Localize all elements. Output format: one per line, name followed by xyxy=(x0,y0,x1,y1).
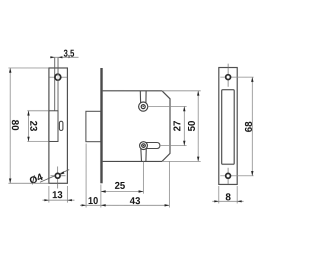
dimension 8 line with tails xyxy=(212,200,243,202)
svg-text:13: 13 xyxy=(52,190,63,201)
faceplate front view outline xyxy=(49,68,68,183)
dimension 80 extension bottom xyxy=(8,182,48,184)
extension line faceplate face xyxy=(100,184,102,207)
svg-text:27: 27 xyxy=(172,120,183,131)
keyhole slot xyxy=(59,121,63,130)
dimension 27 line xyxy=(183,106,185,145)
dimension 23 extension top xyxy=(27,110,48,112)
strike top hole centre lines xyxy=(227,64,229,87)
bottom screw hole xyxy=(55,173,60,178)
bottom hole centre lines xyxy=(57,166,59,188)
bottom key pin centre dot xyxy=(143,145,144,146)
svg-text:10: 10 xyxy=(88,196,99,207)
top key pin bulb xyxy=(139,102,148,111)
centre line through top hole xyxy=(57,74,59,81)
dimension 50 line xyxy=(197,91,199,162)
extension line pin centre xyxy=(142,162,144,194)
svg-text:25: 25 xyxy=(115,181,126,192)
keyway slot left edge xyxy=(54,57,56,111)
diameter leader line xyxy=(40,170,69,183)
bottom key pin bulb xyxy=(140,142,148,150)
lock case outline with chamfered right corners xyxy=(103,91,170,162)
dimension 23 extension bottom xyxy=(27,140,48,142)
dimension 3,5 line xyxy=(50,56,79,58)
bolt cutout rectangle xyxy=(49,111,58,142)
keyway slot right edge / hole centre line xyxy=(57,57,59,111)
top key pin stem xyxy=(140,91,146,103)
dimension 13 extension lines xyxy=(48,186,50,203)
top key pin centre dot xyxy=(143,106,144,107)
svg-text:68: 68 xyxy=(244,121,255,132)
svg-text:Ø4: Ø4 xyxy=(28,172,45,188)
dimension 80 line xyxy=(9,68,11,183)
dimension 50 extension bottom xyxy=(162,160,201,162)
top hole centre line horizontal xyxy=(49,76,67,78)
strike plate front view outline xyxy=(219,68,237,185)
svg-text:3,5: 3,5 xyxy=(64,49,75,60)
dimension 13 line with tails xyxy=(42,199,74,201)
leader arrowhead xyxy=(60,171,65,174)
dimension 23 line xyxy=(27,111,29,142)
svg-text:80: 80 xyxy=(9,120,20,131)
dimension 27 extension bottom xyxy=(160,145,187,147)
faceplate side view (edge-on bar) xyxy=(100,68,102,183)
strike plate slot xyxy=(222,90,235,165)
strike top screw hole xyxy=(226,75,231,80)
dimension 68 line xyxy=(251,77,253,176)
strike bottom screw hole xyxy=(226,173,231,178)
svg-text:23: 23 xyxy=(27,121,38,132)
dimension 80 extension top xyxy=(8,67,48,69)
bottom key pin ring xyxy=(142,144,146,148)
bolt side view xyxy=(86,111,101,141)
bottom key pin stem xyxy=(141,148,147,162)
top key pin ring xyxy=(141,105,145,109)
bottom key pin arm xyxy=(143,143,159,149)
svg-text:50: 50 xyxy=(187,120,198,131)
dimension 25 line xyxy=(101,190,143,192)
strike bottom hole centre lines xyxy=(227,168,229,184)
extension line bolt left edge xyxy=(85,143,87,207)
top screw hole xyxy=(55,74,61,80)
svg-text:8: 8 xyxy=(225,192,231,203)
dimension 50 extension top xyxy=(162,90,201,92)
extension line case right edge xyxy=(168,161,170,207)
dimension 10 and 43 line xyxy=(80,204,169,206)
dimension 8 extension lines xyxy=(218,186,220,203)
dimension 27 extension top xyxy=(148,105,187,107)
svg-text:43: 43 xyxy=(130,196,141,207)
